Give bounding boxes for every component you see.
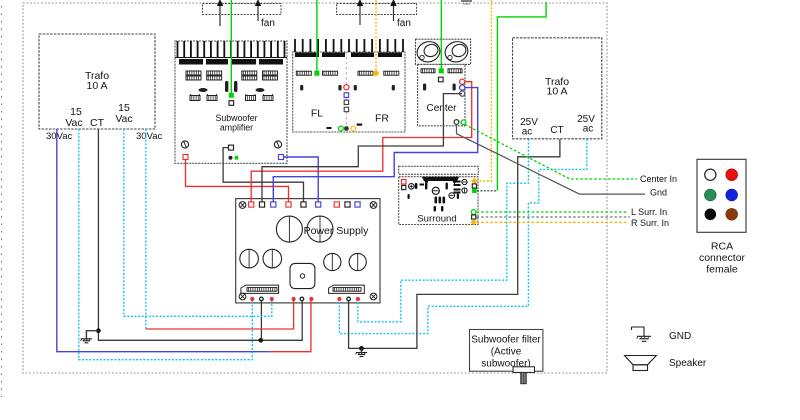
svg-text:FL: FL: [311, 108, 323, 120]
ground stub right: [355, 348, 367, 356]
center amp toroid right: [442, 39, 470, 65]
svg-text:connector: connector: [699, 252, 746, 264]
FL FR heatsink base blocks: [295, 53, 402, 58]
wire orange R-surr: [477, 221, 628, 223]
wire black PS pad down to CT bus: [260, 301, 262, 340]
svg-text:female: female: [706, 264, 738, 276]
wire gray surr gnd: [477, 216, 631, 218]
svg-text:ac: ac: [583, 124, 594, 135]
surround bottom-right pad green: [471, 210, 476, 215]
surround left pad white: [402, 185, 406, 189]
page margin dashed line: [1, 6, 3, 397]
RCA jack black: [705, 209, 717, 221]
svg-text:Vac: Vac: [115, 113, 132, 125]
RCA jack green: [705, 189, 717, 201]
subwoofer amp small caps: [199, 88, 265, 92]
svg-text:CT: CT: [550, 125, 563, 136]
subwoofer amp mounting screw right: [274, 141, 281, 148]
surround small parts: [408, 179, 468, 211]
svg-text:R Surr. In: R Surr. In: [631, 218, 669, 228]
chassis enclosure dashed border: [23, 3, 607, 373]
subwoofer amp indicator dots: [229, 156, 239, 160]
svg-text:FR: FR: [375, 113, 389, 125]
svg-text:GND: GND: [669, 331, 691, 342]
wire black T1 CT down: [98, 129, 302, 340]
svg-text:30Vac: 30Vac: [46, 131, 72, 142]
svg-text:fan: fan: [261, 18, 275, 29]
cut-off symbol at top border: [461, 1, 472, 4]
FL FR capacitor bars: [300, 85, 395, 91]
T2 terminal label 25V ac left: [520, 117, 538, 138]
RCA jack red: [726, 169, 738, 181]
svg-text:Speaker: Speaker: [669, 358, 707, 369]
wire black T2 CT to PS: [349, 139, 560, 348]
FL FR center column pads: [344, 85, 349, 112]
subwoofer amp supply pad blue: [279, 155, 284, 160]
RCA jack blue: [726, 189, 738, 201]
fan 1 box: [203, 4, 282, 15]
svg-text:Gnd: Gnd: [650, 188, 667, 198]
fan 2 wire left with arrow: [357, 0, 363, 25]
surround right pad white: [472, 184, 476, 188]
center amp board outline: [418, 64, 465, 125]
fan 2 box: [337, 4, 417, 15]
junction dot CT left: [96, 328, 101, 333]
RCA connector panel: [697, 159, 746, 232]
wire cyan T2 25V-left to PS pad: [358, 139, 529, 322]
power supply filter caps medium: [240, 249, 367, 270]
subwoofer amp mounting screw left: [181, 141, 188, 148]
surround bottom-right pad black: [472, 215, 476, 219]
subwoofer amp transistor row: [190, 94, 273, 101]
wire link surround green pad to green drop: [477, 190, 497, 192]
subwoofer amp resistors row: [186, 71, 278, 80]
surround board outline: [399, 177, 478, 225]
svg-text:Vac: Vac: [65, 117, 82, 129]
svg-text:Subwoofer: Subwoofer: [215, 113, 257, 123]
svg-text:CT: CT: [90, 117, 105, 129]
wire orange to FR input: [375, 0, 377, 70]
junction dot PS black bottom-right: [359, 346, 364, 351]
center amp toroid box: [416, 39, 471, 64]
svg-text:10 A: 10 A: [546, 86, 567, 98]
svg-text:Surround: Surround: [417, 214, 456, 225]
wire red junction to PS bottom pad: [270, 301, 311, 352]
power supply connector left: [241, 285, 279, 293]
T1 terminal label 15 Vac right: [115, 102, 132, 125]
center amp input pad (green): [439, 68, 444, 73]
svg-text:fan: fan: [397, 18, 411, 29]
power supply board outline: [236, 199, 380, 303]
wire cyan T1 30Vac-right down: [145, 129, 147, 329]
wire gray center gnd diagonal to Gnd label: [457, 125, 646, 195]
FL FR amplifier board outline: [293, 52, 405, 132]
power supply corner screws: [239, 202, 377, 300]
wire red center amp to PS top pad: [251, 82, 472, 202]
power supply bridge rectifier: [290, 263, 315, 288]
svg-text:amplifier: amplifier: [220, 123, 253, 133]
wire black center amp to PS top pad: [262, 94, 462, 202]
wire red continuation to PS bottom pad: [146, 301, 294, 329]
wire red subwoofer supply to PS top pad: [186, 160, 289, 203]
wire green to center input: [440, 0, 442, 69]
surround bottom-right pad orange: [471, 219, 477, 225]
FL FR bottom tick: [327, 124, 363, 130]
fan 1 wire left with arrow: [217, 0, 223, 26]
fan 2 wire right with arrow: [390, 0, 396, 21]
legend GND symbol: [632, 327, 652, 341]
subwoofer amp pad below: [229, 101, 234, 106]
surround heatsink clamp: [422, 177, 460, 185]
subwoofer amplifier board outline: [175, 41, 287, 163]
center amp bottom pads: [454, 120, 466, 125]
junction dot PS black bottom-left: [259, 338, 264, 343]
subwoofer amp electrolytics: [225, 81, 237, 92]
wire black subwoofer output to PS top pad: [223, 148, 303, 202]
FL FR center dashed line: [345, 52, 347, 130]
wire blue T1 30Vac-left to junction with red: [57, 129, 270, 352]
center amp capacitor bars: [423, 84, 456, 91]
transformer T2 label: [545, 76, 569, 98]
legend speaker symbol: [625, 356, 657, 371]
T1 terminal label 15 Vac left: [65, 106, 82, 129]
center amp right pads red blue gray: [460, 79, 465, 96]
power supply bottom pads: [250, 297, 360, 301]
wire green fan-side to subwoofer input: [230, 0, 232, 93]
subwoofer amp input pad (green): [229, 93, 234, 98]
svg-text:Subwoofer filter: Subwoofer filter: [471, 335, 541, 346]
wire green center-in diagonal: [465, 125, 637, 180]
FL FR heatsink fins: [294, 39, 404, 52]
transformer T1 label: [85, 70, 109, 92]
svg-text:(Active: (Active: [491, 347, 522, 358]
transformer T2 box: [513, 38, 602, 139]
subwoofer amp heatsink base blocks: [179, 59, 283, 65]
power supply filter caps large: [276, 216, 333, 242]
FL input pad (green): [314, 71, 319, 76]
subwoofer amp output pad (black): [229, 145, 234, 150]
wire cyan T2 25V-right to PS pad: [339, 139, 586, 334]
T2 terminal label 25V ac right: [577, 114, 595, 135]
svg-text:Power Supply: Power Supply: [304, 225, 370, 237]
svg-text:L Surr. In: L Surr. In: [631, 207, 667, 217]
fan 1 wire right with arrow: [255, 0, 261, 21]
ground stub left: [80, 331, 98, 343]
wire cyan T1 15Vac to PS bottom far pad: [79, 129, 253, 360]
wire cyan T1 15Vac-2 to PS bottom pad: [124, 129, 272, 316]
wire green to FL input: [316, 0, 318, 71]
wire blue center amp to PS top pad: [273, 88, 477, 202]
subwoofer filter box: [470, 330, 543, 372]
center amp toroid left: [414, 39, 442, 65]
RCA jack brown: [726, 209, 738, 221]
transformer T1 box: [39, 34, 155, 129]
RCA panel label: [699, 241, 746, 276]
wire blue subwoofer supply to PS top pad: [284, 157, 319, 202]
surround right pad green: [472, 189, 477, 194]
RCA jack white: [705, 169, 716, 180]
FR input pad (orange): [373, 70, 380, 77]
FL FR bottom pads: [339, 126, 356, 131]
power supply top pads: [249, 202, 361, 207]
surround heatsink bar: [399, 166, 479, 174]
wire orange top to surround orange pad: [478, 0, 491, 181]
center amp resistors: [421, 69, 462, 73]
svg-text:RCA: RCA: [711, 241, 733, 253]
svg-text:Center In: Center In: [640, 174, 677, 184]
surround left pad red: [401, 179, 406, 184]
svg-text:Center: Center: [426, 103, 457, 114]
subwoofer filter RCA plug: [513, 367, 535, 384]
subwoofer amp board label: [215, 113, 257, 133]
center amp pad below: [439, 77, 444, 82]
svg-text:ac: ac: [522, 127, 533, 138]
wire green top-right to surround green pad: [497, 2, 546, 191]
surround right pad orange: [471, 178, 477, 184]
subwoofer amp heatsink fins: [175, 41, 287, 58]
power supply connector right: [329, 285, 365, 293]
FL FR resistors row: [296, 71, 399, 75]
subwoofer amp supply pad red: [183, 155, 188, 160]
svg-text:30Vac: 30Vac: [136, 131, 162, 142]
wire green L-surr: [477, 211, 628, 213]
subwoofer filter label: [471, 335, 541, 370]
svg-text:10 A: 10 A: [86, 80, 107, 92]
